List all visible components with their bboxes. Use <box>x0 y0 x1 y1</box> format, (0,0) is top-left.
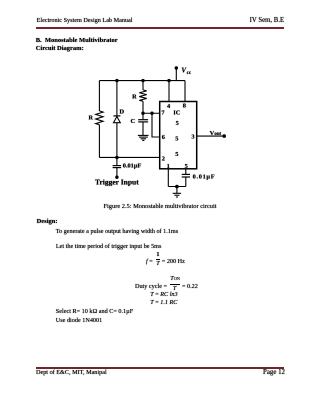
wire: pin 1 to ground bus <box>167 169 169 187</box>
wire: trigger node to coupling capacitor <box>116 157 118 165</box>
wire: node to capacitor C <box>142 113 144 119</box>
svg-text:0.01µF: 0.01µF <box>123 162 142 169</box>
wire: diode anode to trigger line <box>116 123 118 158</box>
label Vcc <box>181 67 192 77</box>
svg-text:D: D <box>119 108 124 115</box>
header rule <box>36 27 284 29</box>
svg-text:4: 4 <box>167 103 171 110</box>
label R (timing resistor) <box>132 94 137 101</box>
equation T = 1.1 RC <box>150 300 177 306</box>
value label 0.01uF (coupling) <box>123 162 142 169</box>
svg-text:R: R <box>89 115 94 122</box>
label R (left resistor) <box>89 115 94 122</box>
equation Duty cycle <box>135 284 167 290</box>
pin label 5 (control) <box>185 163 188 170</box>
resistor R (left, trigger pull-up) <box>96 111 103 125</box>
junction: rail / pin 4 drop <box>167 79 170 82</box>
select components line <box>56 309 133 315</box>
label Vout <box>210 130 222 137</box>
wire: rail corner to pin 8 <box>184 81 186 102</box>
wire: pin 7 to pin 6 tie <box>152 113 160 137</box>
figure caption <box>0 204 320 210</box>
junction: trigger node <box>115 156 118 159</box>
header right text <box>250 18 285 25</box>
terminal Vout <box>222 134 226 138</box>
wire: pin 5 to control capacitor <box>185 169 187 174</box>
wire: control capacitor to ground bus <box>185 177 187 187</box>
resistor R (timing) <box>139 90 146 101</box>
svg-text:0.01µF: 0.01µF <box>193 174 216 181</box>
junction: R-C node / pin 7 <box>141 112 144 115</box>
svg-text:1: 1 <box>167 163 170 170</box>
capacitor 0.01uF (trigger coupling) <box>113 166 122 168</box>
junction: pin 6 tie on pin 7 wire <box>150 112 153 115</box>
label D <box>119 108 124 115</box>
wire: capacitor C to ground <box>142 122 144 135</box>
svg-text:5: 5 <box>175 136 178 143</box>
junction: rail / diode branch <box>115 79 118 82</box>
svg-text:R: R <box>132 94 137 101</box>
wire: ground bus <box>168 186 186 188</box>
wire: timing resistor to node <box>142 101 144 113</box>
pin label 7 <box>161 110 165 117</box>
footer rule <box>36 367 284 369</box>
svg-text:5: 5 <box>175 151 178 158</box>
wire: left resistor to trigger line <box>98 125 100 158</box>
design line 1 <box>56 229 178 235</box>
equation T = RC ln3 <box>150 292 177 298</box>
wire: rail to left resistor R <box>98 81 100 111</box>
pin label 8 <box>183 103 186 110</box>
wire: rail to diode cathode <box>116 81 118 117</box>
footer left text <box>36 370 107 376</box>
capacitor 0.01uF (control, pin 5) <box>182 174 190 177</box>
wire: coupling capacitor to trigger terminal <box>116 168 118 178</box>
svg-text:3: 3 <box>191 134 194 141</box>
svg-text:IC: IC <box>173 110 180 117</box>
label IC 555 <box>173 110 180 159</box>
label Trigger Input <box>95 178 139 187</box>
op-amp/IC U1 555 timer body <box>160 102 197 169</box>
pin label 3 <box>191 134 194 141</box>
wire: Vcc supply rail <box>99 80 185 82</box>
svg-text:Trigger Input: Trigger Input <box>95 178 139 187</box>
diode D <box>113 116 120 123</box>
svg-text:cc: cc <box>187 70 192 76</box>
svg-text:5: 5 <box>185 163 188 170</box>
section title <box>36 38 118 45</box>
svg-text:2: 2 <box>162 155 165 162</box>
equation f = 1/T = 200 Hz <box>146 259 153 265</box>
header left text <box>37 18 133 24</box>
wire: trigger line to pin 2 <box>99 156 159 158</box>
wire: rail to pin 4 <box>168 81 170 102</box>
svg-text:6: 6 <box>162 134 166 141</box>
label C <box>131 118 136 125</box>
design line 2 <box>56 244 162 250</box>
footer right text <box>263 370 285 377</box>
wire: rail to timing resistor <box>142 81 144 90</box>
svg-text:out: out <box>214 132 221 137</box>
value label 0.01uF (control) <box>193 174 216 181</box>
wire: node to pin 7 <box>143 112 160 114</box>
svg-text:7: 7 <box>161 110 165 117</box>
power terminal Vcc <box>175 66 178 80</box>
wire: bus to ground symbol <box>176 187 178 194</box>
pin label 6 <box>162 134 166 141</box>
svg-text:5: 5 <box>176 120 179 127</box>
ground (IC pin 1) <box>173 193 181 197</box>
capacitor C (timing) <box>138 120 148 122</box>
svg-text:8: 8 <box>183 103 186 110</box>
diode line <box>56 318 102 324</box>
terminal: Trigger Input <box>115 176 118 179</box>
pin label 4 <box>167 103 171 110</box>
subtitle <box>36 46 84 53</box>
junction: ground bus <box>175 185 179 189</box>
pin label 2 <box>162 155 165 162</box>
Design heading <box>37 219 58 226</box>
junction: rail / timing resistor branch <box>141 79 144 82</box>
svg-text:C: C <box>131 118 136 125</box>
pin label 1 <box>167 163 170 170</box>
wire: pin 3 to Vout terminal <box>197 135 225 137</box>
ground (timing capacitor) <box>138 135 149 140</box>
